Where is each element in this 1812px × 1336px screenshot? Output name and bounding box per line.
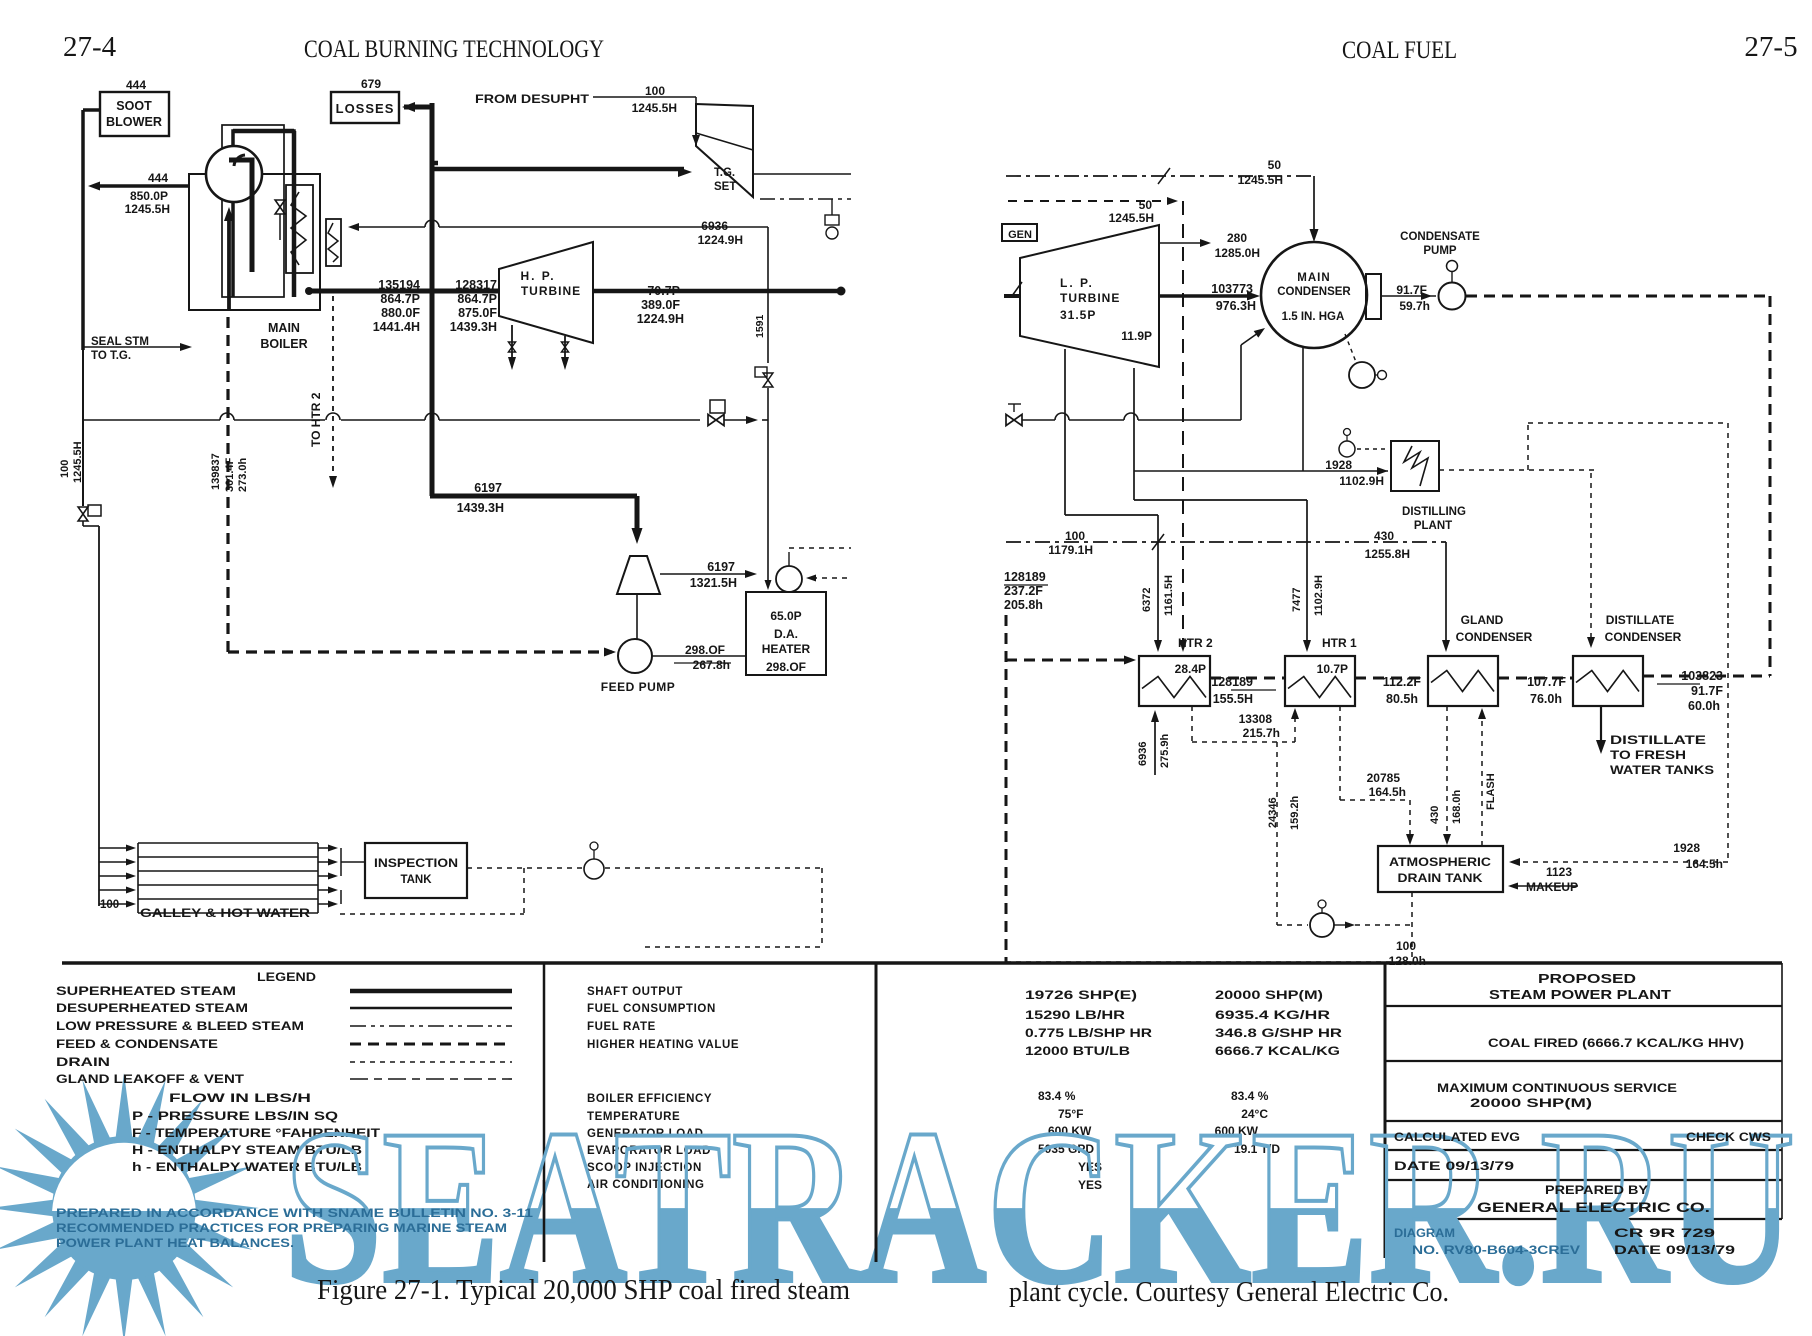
svg-text:CONDENSER: CONDENSER [1456,630,1533,644]
svg-text:237.2F: 237.2F [1004,584,1043,598]
svg-text:20785: 20785 [1367,771,1401,785]
svg-text:SUPERHEATED STEAM: SUPERHEATED STEAM [56,986,236,998]
svg-text:DATE 09/13/79: DATE 09/13/79 [1614,1243,1735,1257]
svg-text:1161.5H: 1161.5H [1163,575,1175,616]
svg-text:1321.5H: 1321.5H [690,576,737,590]
svg-text:1.5 IN. HGA: 1.5 IN. HGA [1282,311,1345,323]
svg-text:24346: 24346 [1267,797,1279,828]
svg-text:112.2F: 112.2F [1383,675,1422,689]
svg-text:SET: SET [714,181,736,193]
svg-text:430: 430 [1429,806,1441,824]
svg-text:PREPARED IN ACCORDANCE WITH SN: PREPARED IN ACCORDANCE WITH SNAME BULLET… [56,1208,534,1220]
svg-text:164.5h: 164.5h [1686,857,1723,871]
svg-text:27-4: 27-4 [63,31,117,63]
svg-text:TURBINE: TURBINE [521,284,581,298]
svg-text:880.0F: 880.0F [381,306,420,320]
svg-text:215.7h: 215.7h [1243,726,1280,740]
svg-text:60.0h: 60.0h [1688,699,1720,713]
svg-text:Figure 27-1. Typical 20,000 SH: Figure 27-1. Typical 20,000 SHP coal fir… [317,1275,850,1306]
svg-text:WATER TANKS: WATER TANKS [1610,765,1714,777]
svg-text:FLASH: FLASH [1485,773,1497,810]
svg-text:100: 100 [59,460,71,478]
svg-text:850.0P: 850.0P [130,189,168,203]
svg-text:139837: 139837 [210,453,222,490]
svg-text:ATMOSPHERIC: ATMOSPHERIC [1389,855,1491,869]
svg-text:1441.4H: 1441.4H [373,320,420,334]
svg-text:GLAND: GLAND [1461,613,1504,627]
svg-text:TO T.G.: TO T.G. [91,350,131,362]
svg-text:CONDENSER: CONDENSER [1277,286,1351,298]
svg-text:PROPOSED: PROPOSED [1538,971,1636,986]
svg-text:80.5h: 80.5h [1386,692,1418,706]
svg-text:444: 444 [126,78,146,92]
svg-text:875.0F: 875.0F [458,306,497,320]
svg-text:103823: 103823 [1681,669,1723,683]
svg-text:28.4P: 28.4P [1175,662,1206,676]
svg-text:6197: 6197 [707,560,735,574]
svg-text:CONDENSER: CONDENSER [1605,630,1682,644]
svg-text:679: 679 [361,77,381,91]
svg-text:103773: 103773 [1211,282,1253,296]
svg-text:19726 SHP(E): 19726 SHP(E) [1025,988,1137,1002]
svg-text:50: 50 [1139,198,1153,212]
svg-text:GLAND LEAKOFF & VENT: GLAND LEAKOFF & VENT [56,1074,244,1086]
svg-text:31.5P: 31.5P [1060,308,1096,322]
svg-text:HEATER: HEATER [762,642,811,656]
svg-text:TO FRESH: TO FRESH [1610,750,1686,762]
svg-text:10.7P: 10.7P [1317,662,1348,676]
svg-text:100: 100 [100,899,119,911]
svg-text:273.0h: 273.0h [237,457,249,492]
svg-text:6935.4 KG/HR: 6935.4 KG/HR [1215,1008,1330,1022]
svg-text:GALLEY & HOT WATER: GALLEY & HOT WATER [140,908,311,920]
svg-text:COAL FIRED (6666.7 KCAL/KG HHV: COAL FIRED (6666.7 KCAL/KG HHV) [1488,1036,1744,1050]
svg-text:65.0P: 65.0P [770,609,801,623]
svg-text:1102.9H: 1102.9H [1313,575,1325,616]
svg-text:59.7h: 59.7h [1399,299,1430,313]
svg-text:128317: 128317 [455,278,497,292]
svg-text:CHECK CWS: CHECK CWS [1686,1130,1771,1144]
svg-text:1928: 1928 [1325,458,1352,472]
svg-text:BOILER: BOILER [260,337,307,351]
svg-text:12000 BTU/LB: 12000 BTU/LB [1025,1044,1130,1058]
svg-text:MAKEUP: MAKEUP [1526,880,1578,894]
svg-text:CONDENSATE: CONDENSATE [1400,231,1480,243]
svg-text:BLOWER: BLOWER [106,115,162,129]
svg-text:DISTILLATE: DISTILLATE [1606,613,1674,627]
svg-text:HTR 2: HTR 2 [1178,636,1213,650]
svg-text:107.7F: 107.7F [1527,675,1566,689]
svg-text:100: 100 [1065,529,1085,543]
svg-text:POWER PLANT HEAT BALANCES.: POWER PLANT HEAT BALANCES. [56,1238,294,1250]
svg-text:MAIN: MAIN [1297,272,1330,284]
svg-text:1245.5H: 1245.5H [72,441,84,483]
svg-text:430: 430 [1374,529,1394,543]
svg-text:GEN: GEN [1008,229,1032,241]
svg-text:RECOMMENDED PRACTICES FOR PREP: RECOMMENDED PRACTICES FOR PREPARING MARI… [56,1223,507,1235]
svg-text:FEED & CONDENSATE: FEED & CONDENSATE [56,1039,218,1051]
svg-text:DISTILLATE: DISTILLATE [1610,735,1706,747]
svg-text:128189: 128189 [1004,570,1046,584]
svg-text:DATE 09/13/79: DATE 09/13/79 [1394,1159,1514,1173]
svg-text:LOW PRESSURE & BLEED STEAM: LOW PRESSURE & BLEED STEAM [56,1021,304,1033]
svg-text:7477: 7477 [1291,588,1303,612]
svg-text:280: 280 [1227,231,1247,245]
svg-text:1285.0H: 1285.0H [1215,246,1260,260]
svg-text:13308: 13308 [1239,712,1273,726]
svg-text:159.2h: 159.2h [1289,795,1301,830]
svg-text:6197: 6197 [474,481,502,495]
svg-text:1224.9H: 1224.9H [637,312,684,326]
svg-text:444: 444 [148,171,168,185]
svg-text:SHAFT OUTPUT: SHAFT OUTPUT [587,986,683,998]
svg-text:50: 50 [1268,158,1282,172]
svg-text:COAL BURNING TECHNOLOGY: COAL BURNING TECHNOLOGY [304,36,604,63]
svg-text:SOOT: SOOT [116,99,152,113]
svg-text:1439.3H: 1439.3H [450,320,497,334]
svg-text:1123: 1123 [1546,865,1572,879]
svg-text:168.0h: 168.0h [1451,789,1463,824]
svg-text:164.5h: 164.5h [1369,785,1406,799]
svg-text:205.8h: 205.8h [1004,598,1043,612]
svg-text:NO. RV80-B604-3CREV: NO. RV80-B604-3CREV [1412,1243,1580,1257]
svg-text:1591: 1591 [754,314,766,338]
svg-text:1245.5H: 1245.5H [1238,173,1283,187]
svg-text:1245.5H: 1245.5H [1109,211,1154,225]
svg-text:LEGEND: LEGEND [257,970,316,984]
svg-text:TURBINE: TURBINE [1060,291,1120,305]
svg-text:267.8h: 267.8h [693,658,730,672]
svg-text:FEED PUMP: FEED PUMP [601,680,676,694]
svg-text:91.7F: 91.7F [1691,684,1723,698]
svg-text:128.0h: 128.0h [1389,954,1426,968]
svg-text:976.3H: 976.3H [1216,299,1256,313]
svg-text:11.9P: 11.9P [1121,329,1152,343]
svg-text:135194: 135194 [378,278,420,292]
svg-text:298.OF: 298.OF [685,643,725,657]
svg-text:301.4F: 301.4F [224,457,236,492]
svg-text:DRAIN TANK: DRAIN TANK [1398,871,1483,885]
svg-text:6936: 6936 [1137,742,1149,766]
svg-text:298.OF: 298.OF [766,660,806,674]
svg-text:D.A.: D.A. [774,627,798,641]
svg-text:INSPECTION: INSPECTION [374,858,458,870]
svg-text:CR 9R 729: CR 9R 729 [1614,1226,1716,1240]
svg-text:27-5: 27-5 [1744,31,1797,63]
svg-text:COAL FUEL: COAL FUEL [1342,37,1457,64]
svg-text:70.7P: 70.7P [647,284,680,298]
svg-text:0.775 LB/SHP HR: 0.775 LB/SHP HR [1025,1026,1152,1040]
svg-text:6372: 6372 [1141,588,1153,612]
svg-text:1255.8H: 1255.8H [1365,547,1410,561]
svg-text:STEAM POWER PLANT: STEAM POWER PLANT [1489,987,1671,1002]
svg-text:6666.7 KCAL/KG: 6666.7 KCAL/KG [1215,1044,1340,1058]
svg-text:HTR 1: HTR 1 [1322,636,1357,650]
svg-text:346.8 G/SHP HR: 346.8 G/SHP HR [1215,1026,1342,1040]
svg-text:MAIN: MAIN [268,321,300,335]
svg-text:FROM DESUPHT: FROM DESUPHT [475,94,589,106]
svg-text:TANK: TANK [400,874,432,886]
svg-text:128189: 128189 [1211,675,1253,689]
svg-text:1224.9H: 1224.9H [698,233,743,247]
svg-text:275.9h: 275.9h [1159,733,1171,768]
svg-text:HIGHER HEATING VALUE: HIGHER HEATING VALUE [587,1039,739,1051]
svg-text:15290 LB/HR: 15290 LB/HR [1025,1008,1125,1022]
svg-text:FUEL RATE: FUEL RATE [587,1021,656,1033]
svg-text:GENERAL ELECTRIC CO.: GENERAL ELECTRIC CO. [1477,1199,1710,1215]
svg-text:DISTILLING: DISTILLING [1402,506,1466,518]
svg-text:20000 SHP(M): 20000 SHP(M) [1215,988,1323,1002]
svg-text:DESUPERHEATED STEAM: DESUPERHEATED STEAM [56,1003,248,1015]
svg-text:389.0F: 389.0F [641,298,680,312]
svg-text:FUEL CONSUMPTION: FUEL CONSUMPTION [587,1003,716,1015]
svg-text:PLANT: PLANT [1414,520,1452,532]
svg-text:76.0h: 76.0h [1530,692,1562,706]
svg-text:DRAIN: DRAIN [56,1057,110,1069]
svg-text:1179.1H: 1179.1H [1048,543,1093,557]
svg-text:DIAGRAM: DIAGRAM [1394,1226,1455,1240]
svg-text:155.5H: 155.5H [1213,692,1253,706]
svg-text:100: 100 [645,84,665,98]
svg-text:H. P.: H. P. [520,269,555,283]
svg-text:SEAL STM: SEAL STM [91,336,149,348]
svg-text:L. P.: L. P. [1060,276,1094,290]
svg-text:864.7P: 864.7P [380,292,420,306]
svg-text:6936: 6936 [701,219,728,233]
svg-text:LOSSES: LOSSES [336,101,395,116]
svg-text:1245.5H: 1245.5H [632,101,677,115]
svg-text:100: 100 [1396,939,1416,953]
svg-text:1439.3H: 1439.3H [457,501,504,515]
svg-text:1245.5H: 1245.5H [125,202,170,216]
svg-text:91.7F: 91.7F [1396,283,1427,297]
svg-text:T.G.: T.G. [714,167,735,179]
svg-text:1102.9H: 1102.9H [1339,474,1384,488]
svg-text:plant cycle. Courtesy General: plant cycle. Courtesy General Electric C… [1009,1277,1449,1308]
svg-text:PUMP: PUMP [1423,245,1457,257]
svg-text:1928: 1928 [1673,841,1700,855]
svg-text:864.7P: 864.7P [457,292,497,306]
svg-text:CALCULATED EVG: CALCULATED EVG [1394,1130,1520,1144]
svg-text:PREPARED BY: PREPARED BY [1545,1183,1648,1197]
